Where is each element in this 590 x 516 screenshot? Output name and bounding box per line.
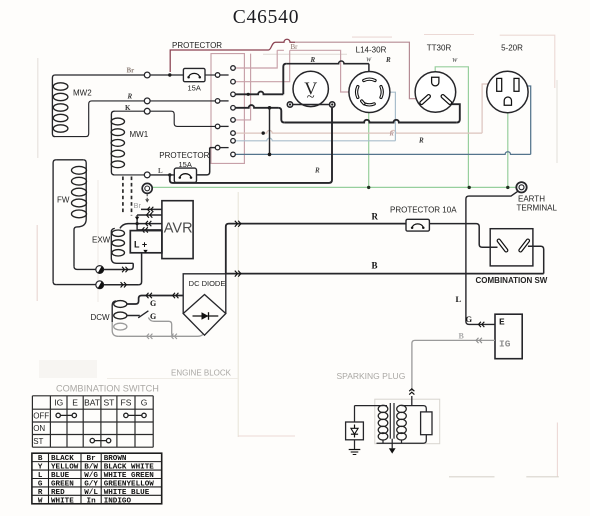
svg-text:In: In xyxy=(87,497,97,505)
wire green from 5-20R ground pin xyxy=(507,105,509,188)
brush 2 xyxy=(96,281,104,289)
receptacle TT30R xyxy=(415,72,456,113)
transformer core xyxy=(389,403,391,439)
junction protector2 input xyxy=(168,173,171,176)
svg-text:G: G xyxy=(150,299,156,308)
svg-text:L: L xyxy=(456,294,462,304)
svg-text:BROWN: BROWN xyxy=(104,455,127,463)
ground under condenser xyxy=(354,440,356,450)
svg-text:~: ~ xyxy=(307,90,315,106)
wire Br node to protector junction xyxy=(150,74,183,76)
ground under transformer core xyxy=(391,439,393,449)
TT30R right slot xyxy=(443,96,450,103)
wire FW to brush1 xyxy=(77,268,96,270)
svg-text:R: R xyxy=(127,93,133,101)
wire black R feed from rectifier to protector 10A xyxy=(226,224,406,274)
svg-text:G: G xyxy=(466,314,473,324)
svg-text:FS: FS xyxy=(121,398,132,408)
wire green from TT30R neutral pin up and over xyxy=(435,67,468,188)
5-20R left slot xyxy=(497,78,502,91)
svg-text:W/G: W/G xyxy=(84,472,98,480)
receptacle L14-30R xyxy=(349,72,390,113)
svg-text:Br: Br xyxy=(127,67,135,75)
TT30R right pin to neutral bus xyxy=(450,103,451,105)
svg-text:R: R xyxy=(418,137,424,145)
svg-text:ON: ON xyxy=(33,424,45,433)
wire FW outer to brush2 xyxy=(56,284,96,286)
wire pale pink contact row6 to 5-20R hot pin xyxy=(235,130,482,133)
faint page artifacts xyxy=(37,58,39,158)
combination switch box xyxy=(490,229,533,266)
svg-text:DCW: DCW xyxy=(91,313,111,322)
svg-text:EXW: EXW xyxy=(92,236,111,245)
stator winding MW1 xyxy=(111,111,114,118)
wire combination switch right to B feed xyxy=(528,246,544,273)
table OFF connections xyxy=(58,414,74,416)
pink box around combination switch contacts xyxy=(211,54,244,164)
L14-30R slots xyxy=(364,79,375,80)
wire L node to protector 15A no2 xyxy=(150,174,174,176)
ignition coil boundary xyxy=(375,399,440,444)
TT30R top slot xyxy=(432,77,439,86)
svg-text:ST: ST xyxy=(33,437,43,446)
wire light blue contact row7 to L14-30R right pin xyxy=(235,138,395,141)
exciter winding EXW xyxy=(111,228,115,258)
wire color legend table xyxy=(32,453,162,504)
AVR lead 2 xyxy=(137,214,162,216)
svg-text:B: B xyxy=(459,332,465,341)
svg-text:R: R xyxy=(385,56,391,64)
svg-text:R: R xyxy=(372,212,379,222)
wire black B feed from rectifier to combination switch xyxy=(226,273,544,275)
node L connector xyxy=(144,172,150,178)
5-20R ground slot xyxy=(504,97,511,105)
wire protector1 to switch pole1 xyxy=(205,74,217,76)
svg-text:COMBINATION SWITCH: COMBINATION SWITCH xyxy=(56,384,159,394)
svg-text:EARTH: EARTH xyxy=(518,194,545,203)
svg-text:COMBINATION SW: COMBINATION SW xyxy=(476,276,548,285)
5-20R right slot xyxy=(514,78,519,91)
wire brush1 to EXW bottom xyxy=(104,269,131,271)
combination switch table xyxy=(32,395,153,397)
AVR lead 3 to EXW top xyxy=(120,224,162,229)
svg-text:Br: Br xyxy=(291,43,299,51)
svg-text:G: G xyxy=(141,398,148,408)
svg-text:B: B xyxy=(38,455,43,463)
svg-text:W: W xyxy=(38,497,43,505)
up chevrons to spark plug lead xyxy=(409,392,414,394)
junction Br/protector xyxy=(168,73,171,76)
svg-text:BLACK: BLACK xyxy=(51,455,74,463)
svg-text:15A: 15A xyxy=(179,160,192,169)
wire DCW top to DC diode G xyxy=(127,296,183,305)
junction dots on green bus xyxy=(367,186,370,189)
svg-text:L: L xyxy=(38,472,43,480)
svg-text:Y: Y xyxy=(38,464,43,472)
combination switch left blade xyxy=(499,241,506,251)
node Br connector xyxy=(144,72,150,78)
winding DCW xyxy=(114,301,127,308)
voltmeter terminals and base chord xyxy=(293,104,330,106)
grommet terminal xyxy=(142,183,152,193)
svg-text:Br: Br xyxy=(134,201,142,210)
field winding FW xyxy=(53,160,56,166)
wire MW1 bottom to L node xyxy=(114,174,144,176)
exciter terminal box L+ xyxy=(130,231,162,253)
wire K node jog to switch row3 xyxy=(150,111,217,126)
svg-text:ST: ST xyxy=(103,398,114,408)
DCW switch blade xyxy=(127,315,140,317)
wire green from L14-30R ground pin xyxy=(368,110,370,188)
svg-text:BLACK WHITE: BLACK WHITE xyxy=(104,464,155,472)
regulator AVR box xyxy=(162,201,193,259)
earth terminal xyxy=(516,182,526,192)
svg-text:B/W: B/W xyxy=(84,464,98,472)
switch throw contacts right column xyxy=(231,66,236,71)
svg-text:R: R xyxy=(389,131,395,138)
svg-text:SPARKING PLUG: SPARKING PLUG xyxy=(337,371,406,381)
svg-text:IG: IG xyxy=(54,398,63,408)
protector 15A upper box xyxy=(183,68,205,81)
svg-text:WHITE GREEN: WHITE GREEN xyxy=(104,472,155,480)
ignition wiring xyxy=(355,405,384,407)
junction pale pink xyxy=(262,131,265,134)
wire grey bottom to diode bridge xyxy=(118,335,203,337)
svg-text:Br: Br xyxy=(87,455,97,463)
ignition condenser diode box xyxy=(346,422,364,440)
svg-text:MW1: MW1 xyxy=(130,130,149,139)
wire rose from contact row5 up xyxy=(235,54,250,120)
wire green earth bus xyxy=(152,186,517,188)
wire protector2 output up to switch pole4 xyxy=(197,148,210,175)
AVR lead 4 xyxy=(137,229,162,231)
vertical link row4 to row8 xyxy=(269,108,271,155)
svg-text:GREENYELLOW: GREENYELLOW xyxy=(104,480,155,488)
svg-text:BLUE: BLUE xyxy=(51,472,70,480)
svg-text:L14-30R: L14-30R xyxy=(356,45,387,54)
svg-text:E: E xyxy=(72,398,78,408)
svg-text:INDIGO: INDIGO xyxy=(104,497,132,505)
rectifier bridge diamond xyxy=(183,295,226,336)
node R connector xyxy=(144,98,150,104)
engine connector box E IG xyxy=(495,314,522,359)
wire earth terminal to engine block E xyxy=(466,191,518,324)
svg-text:TT30R: TT30R xyxy=(427,43,452,52)
svg-text:W: W xyxy=(366,58,372,64)
grommet dashed arrow xyxy=(146,194,148,199)
voltmeter V xyxy=(293,71,328,106)
wire slate blue contact row8 to 5-20R right pin xyxy=(235,152,530,155)
svg-text:L +: L + xyxy=(134,239,147,249)
svg-text:W: W xyxy=(452,58,458,64)
wire thick black neutral bus to TT30R xyxy=(284,120,457,123)
svg-text:R: R xyxy=(314,166,320,174)
brush 1 xyxy=(96,266,104,274)
svg-text:ENGINE BLOCK: ENGINE BLOCK xyxy=(171,369,232,378)
svg-text:W/L: W/L xyxy=(84,489,98,497)
svg-text:L: L xyxy=(158,167,163,175)
svg-text:E: E xyxy=(499,316,505,327)
wire thick black row4 to neutral bus xyxy=(235,105,278,108)
wire brush2 up to regulator box xyxy=(104,284,139,286)
node K connector xyxy=(144,108,150,114)
ignition transformer secondary xyxy=(397,405,407,412)
AVR lead 1 Br xyxy=(141,208,162,210)
svg-text:GREEN: GREEN xyxy=(51,480,74,488)
bridge diode symbol xyxy=(193,315,219,317)
svg-text:C46540: C46540 xyxy=(233,7,300,28)
ignition transformer primary xyxy=(378,405,388,412)
svg-text:R: R xyxy=(38,489,43,497)
svg-text:G: G xyxy=(38,480,43,488)
protector 15A lower box xyxy=(174,168,196,182)
svg-text:PROTECTOR: PROTECTOR xyxy=(172,41,222,50)
svg-text:B: B xyxy=(372,261,378,271)
wire maroon Br: MW2 top junction to TT30R hot pin xyxy=(170,39,295,72)
svg-text:FW: FW xyxy=(57,196,70,205)
svg-text:K: K xyxy=(125,104,131,112)
wire grey DCW switch to bottom xyxy=(148,318,174,337)
wire thick black row3 to voltmeter top run xyxy=(235,92,283,95)
svg-text:PROTECTOR 10A: PROTECTOR 10A xyxy=(390,206,457,215)
wire MW2 bottom to R node xyxy=(55,101,144,137)
svg-text:5-20R: 5-20R xyxy=(501,43,523,52)
svg-text:MW2: MW2 xyxy=(73,89,92,98)
wire grey IG to ignition coil xyxy=(412,340,495,391)
stator winding MW2 xyxy=(52,75,55,83)
svg-text:AVR: AVR xyxy=(164,221,193,237)
switch pole contacts left column xyxy=(220,74,229,76)
svg-text:WHITE BLUE: WHITE BLUE xyxy=(104,489,150,497)
combination switch right blade xyxy=(521,241,528,251)
wire protector 10A to combination switch xyxy=(429,224,497,248)
wire MW2 top to Br node xyxy=(55,74,144,76)
wire rose staircase from switch contacts xyxy=(235,50,277,68)
rotor brush dashed leads xyxy=(122,177,124,214)
svg-text:G/Y: G/Y xyxy=(84,480,98,488)
rectifier DC DIODE box xyxy=(183,274,226,314)
svg-text:WHITE: WHITE xyxy=(51,497,74,505)
wire black top run to L14-30R hot pin xyxy=(286,61,369,64)
TT30R left slot xyxy=(422,96,429,103)
svg-text:OFF: OFF xyxy=(33,411,49,420)
svg-text:BAT: BAT xyxy=(84,398,100,408)
svg-text:15A: 15A xyxy=(188,84,201,93)
receptacle 5-20R xyxy=(487,71,528,112)
protector 10A box xyxy=(406,219,429,231)
wire R node to switch xyxy=(150,100,217,102)
wire thick black protector2 junction to voltmeter right terminal xyxy=(170,108,332,183)
svg-text:YELLOW: YELLOW xyxy=(51,464,79,472)
wire rose to L14-30R left pin xyxy=(277,50,340,88)
svg-text:PROTECTOR: PROTECTOR xyxy=(159,151,209,160)
svg-text:DC DIODE: DC DIODE xyxy=(189,279,226,288)
svg-text:TERMINAL: TERMINAL xyxy=(517,203,558,212)
spark plug resistor xyxy=(421,412,432,435)
svg-text:IG: IG xyxy=(499,339,511,350)
svg-text:RED: RED xyxy=(51,489,65,497)
vertical link with arrows xyxy=(136,215,138,230)
svg-text:R: R xyxy=(310,56,316,64)
table ST connection xyxy=(92,440,108,442)
